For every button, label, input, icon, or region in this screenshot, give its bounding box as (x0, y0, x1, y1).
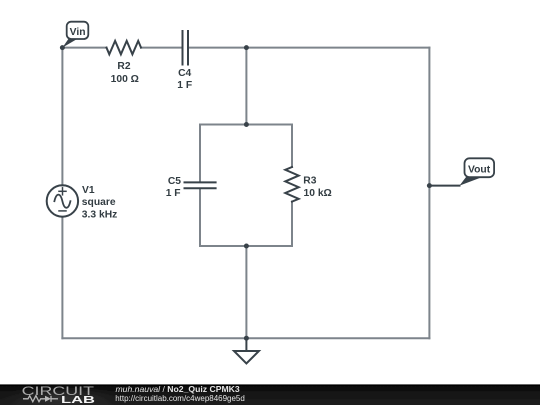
wire box left lower (199, 189, 201, 246)
label R2 value (111, 61, 139, 85)
svg-text:1 F: 1 F (166, 188, 181, 199)
wire box right lower (291, 202, 293, 246)
label V1 value (82, 185, 118, 220)
capacitor C5 (185, 182, 216, 188)
wire middle top vertical (245, 48, 247, 125)
net flag Vout (460, 158, 495, 185)
net flag Vin (62, 22, 88, 48)
node box top (244, 122, 249, 127)
voltage source V1 (47, 185, 78, 216)
label C5 value (166, 176, 182, 199)
svg-text:1 F: 1 F (177, 80, 192, 91)
wire top-left horizontal (62, 47, 106, 49)
svg-text:V1: V1 (82, 185, 95, 196)
svg-text:Vin: Vin (70, 27, 86, 38)
node Vin (60, 45, 65, 50)
svg-text:square: square (82, 197, 116, 208)
svg-text:3.3 kHz: 3.3 kHz (82, 209, 118, 220)
ground (234, 340, 259, 364)
node Vout (427, 183, 432, 188)
svg-text:http://circuitlab.com/c4wep846: http://circuitlab.com/c4wep8469ge5d (115, 393, 245, 403)
wire box right upper (291, 125, 293, 168)
logo wire-resistor-diode glyph (23, 396, 58, 402)
wire R2 to C4 (141, 47, 182, 49)
svg-text:C4: C4 (178, 68, 191, 79)
wire Vout stub (429, 185, 459, 187)
wire left rail lower (61, 217, 63, 339)
wire box bottom (200, 245, 292, 247)
resistor R3 (285, 167, 298, 202)
node box bottom (244, 244, 249, 249)
label C4 value (177, 68, 192, 91)
svg-text:LAB: LAB (61, 394, 96, 405)
capacitor C4 (183, 31, 189, 65)
svg-text:C5: C5 (168, 176, 181, 187)
svg-text:R3: R3 (303, 176, 316, 187)
node bottom rail junction (244, 336, 249, 341)
wire right rail (428, 48, 430, 339)
wire middle lower vertical (245, 246, 247, 338)
components (dark) (47, 31, 460, 364)
label R3 value (303, 176, 331, 199)
svg-text:R2: R2 (117, 61, 130, 72)
resistor R2 (107, 41, 142, 54)
wires (gray) (62, 48, 429, 339)
svg-text:10 kΩ: 10 kΩ (304, 188, 332, 199)
wire left rail upper (61, 48, 63, 186)
node junction top (244, 45, 249, 50)
wire box left upper (199, 125, 201, 182)
wire bottom rail (62, 337, 429, 339)
wire C4 to top-right corner (189, 47, 430, 49)
svg-text:Vout: Vout (468, 164, 491, 175)
svg-text:100 Ω: 100 Ω (111, 74, 139, 85)
wire box top (200, 124, 292, 126)
